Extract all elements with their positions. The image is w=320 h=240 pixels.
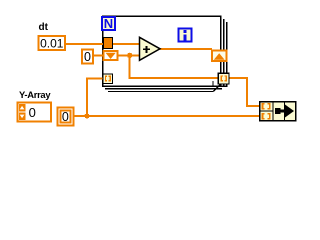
svg-text:0: 0 <box>84 50 91 64</box>
svg-text:0: 0 <box>29 105 36 120</box>
svg-text:0: 0 <box>62 110 69 124</box>
svg-text:N: N <box>104 16 113 31</box>
svg-text:dt: dt <box>39 22 49 33</box>
svg-text:Y-Array: Y-Array <box>19 89 51 100</box>
svg-text:0.01: 0.01 <box>40 36 64 50</box>
